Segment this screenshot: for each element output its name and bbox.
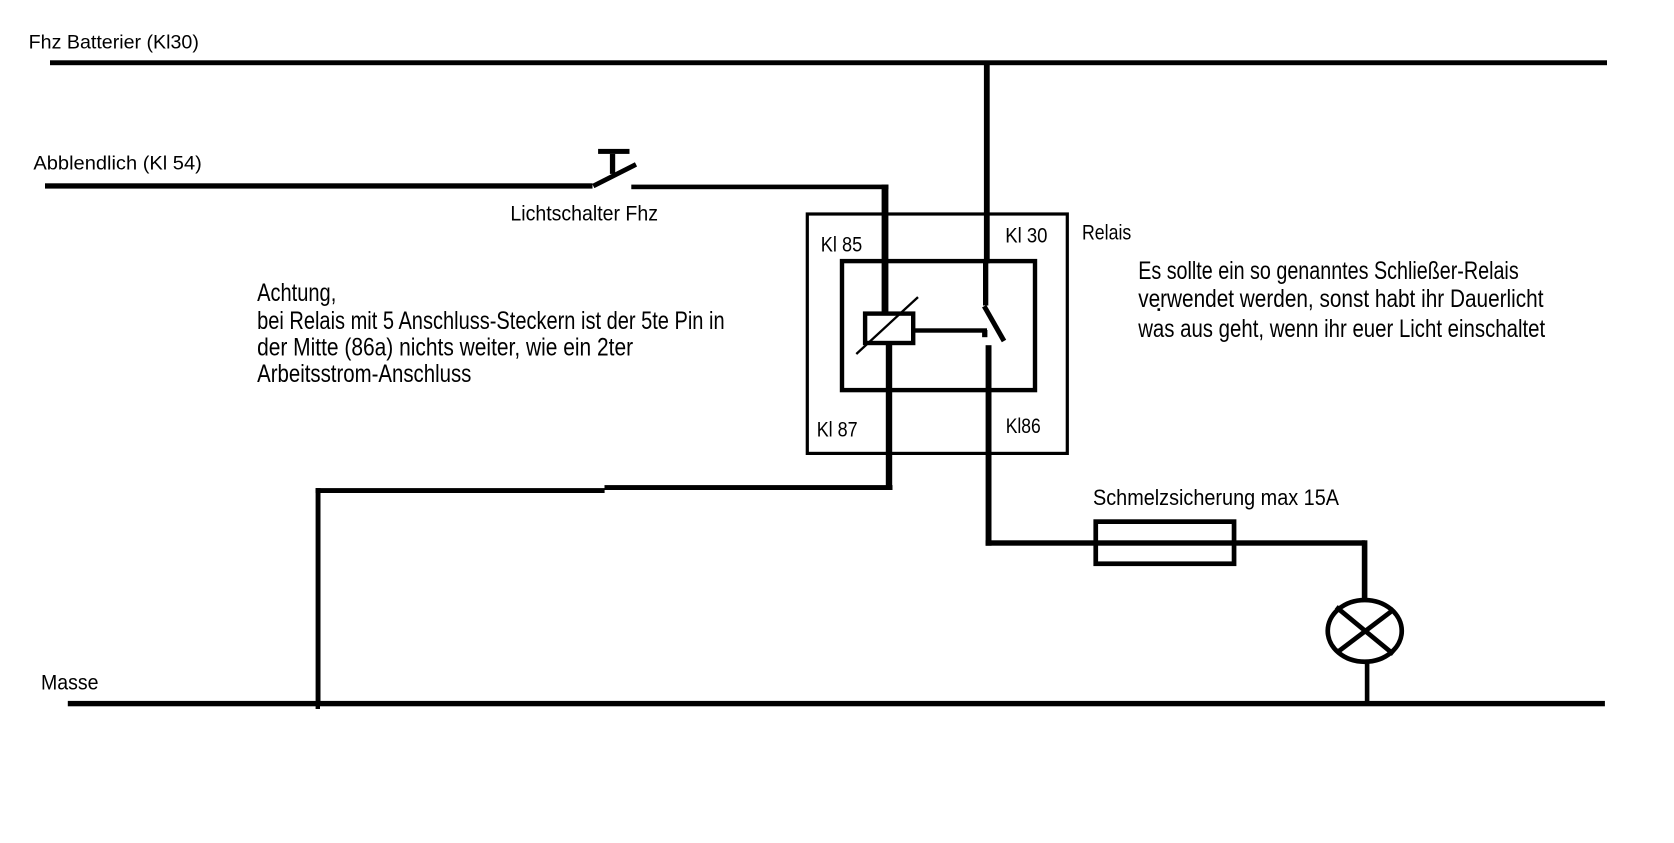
svg-text:Kl 85: Kl 85 xyxy=(821,233,862,257)
wire: Kl86 horizontal run to lamp branch (through fuse) xyxy=(986,540,1365,545)
svg-text:Es sollte ein so genanntes Sch: Es sollte ein so genanntes Schließer-Rel… xyxy=(1138,257,1519,285)
junction nub below Masse bus xyxy=(316,706,320,709)
wire: coil to contact (horizontal inside relay) xyxy=(915,328,987,332)
relay coil K1 box xyxy=(865,314,913,343)
switch S1 actuator T bar xyxy=(598,149,629,154)
svg-text:Schmelzsicherung max 15A: Schmelzsicherung max 15A xyxy=(1093,485,1339,510)
svg-text:was aus geht, wenn ihr euer Li: was aus geht, wenn ihr euer Licht einsch… xyxy=(1137,315,1545,343)
relay coil diagonal stroke xyxy=(856,297,918,354)
relay contact moving lever xyxy=(984,306,1004,341)
stray dot artifact xyxy=(1158,308,1161,311)
svg-text:der Mitte (86a) nichts weiter,: der Mitte (86a) nichts weiter, wie ein 2… xyxy=(257,333,633,361)
contact pivot notch xyxy=(982,330,987,337)
wire: Kl87 left leg down to Masse bus xyxy=(316,488,321,701)
svg-text:bei Relais mit 5 Anschluss-Ste: bei Relais mit 5 Anschluss-Steckern ist … xyxy=(257,307,724,335)
wire: relay Kl87 from coil bottom down xyxy=(886,343,892,490)
wire: relay Kl87 horizontal run (left part) xyxy=(316,488,605,493)
wire: Kl30 drop from battery bus into relay xyxy=(984,65,990,263)
svg-text:Abblendlich (Kl 54): Abblendlich (Kl 54) xyxy=(33,152,201,174)
svg-text:Arbeitsstrom-Anschluss: Arbeitsstrom-Anschluss xyxy=(257,360,471,388)
svg-text:Kl86: Kl86 xyxy=(1006,414,1041,438)
relay contact fixed upper stub (Kl30 side) xyxy=(983,263,988,306)
wire: relay Kl86 down to fuse level xyxy=(986,345,992,546)
switch S1 actuator stem xyxy=(610,154,615,174)
wire: relay Kl87 horizontal run (right part) xyxy=(605,485,893,490)
svg-text:Kl 87: Kl 87 xyxy=(817,418,858,442)
wire: switch output to relay Kl85 (horizontal segment) xyxy=(631,185,888,190)
wire: Masse ground bus (bottom horizontal line) xyxy=(68,701,1605,706)
lamp L1 cross stroke 1 xyxy=(1336,607,1393,654)
svg-text:Lichtschalter Fhz: Lichtschalter Fhz xyxy=(510,202,658,226)
wire: Abblendlich Kl54 feed (left horizontal segment to switch) xyxy=(45,183,593,188)
wire: Fhz Batterier Kl30 supply bus (top horizontal line) xyxy=(50,60,1607,65)
fuse F1 Schmelzsicherung body xyxy=(1096,522,1234,564)
lamp L1 cross stroke 2 xyxy=(1337,609,1394,652)
svg-text:verwendet werden, sonst habt i: verwendet werden, sonst habt ihr Dauerli… xyxy=(1138,285,1543,313)
wire: vertical drop into relay pin Kl85 xyxy=(882,185,889,314)
svg-text:Kl 30: Kl 30 xyxy=(1005,224,1047,248)
wire: lamp to Masse bus xyxy=(1365,662,1370,702)
relay U1 outer housing box xyxy=(807,214,1067,453)
svg-text:Relais: Relais xyxy=(1082,222,1131,245)
relay U1 inner box xyxy=(842,261,1035,390)
svg-text:Achtung,: Achtung, xyxy=(257,279,336,307)
switch S1 Lichtschalter Fhz (lever) xyxy=(593,164,636,186)
svg-text:Masse: Masse xyxy=(41,672,99,695)
svg-text:Fhz Batterier (Kl30): Fhz Batterier (Kl30) xyxy=(29,32,199,54)
lamp L1 body (circle) xyxy=(1328,600,1402,662)
wire: fuse output down to lamp xyxy=(1362,540,1368,599)
